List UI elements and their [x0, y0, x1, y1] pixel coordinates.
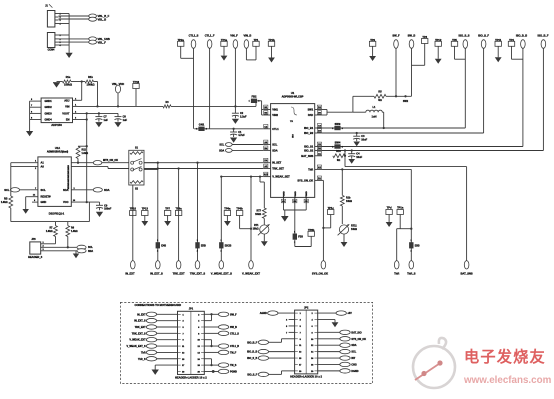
svg-text:VBL_VDD: VBL_VDD [112, 82, 124, 86]
thermistor RT11 10k [341, 206, 343, 224]
node SDA flag header [77, 249, 86, 253]
wire V_WEAK_SET rail [221, 176, 263, 178]
ground [435, 59, 442, 64]
wire [269, 341, 282, 343]
svg-text:CHG: CHG [351, 363, 356, 366]
svg-text:GND4: GND4 [45, 118, 53, 122]
node ThR flag [394, 261, 399, 269]
svg-text:ISO_B_B: ISO_B_B [247, 351, 258, 354]
svg-text:BAT_SNS: BAT_SNS [461, 272, 473, 276]
wire [157, 326, 178, 328]
svg-text:ADP5063-WLCSP: ADP5063-WLCSP [282, 94, 304, 98]
node ISO_B_B flag [521, 40, 526, 49]
bead SW9 [334, 126, 340, 130]
svg-text:CTL1_B: CTL1_B [230, 345, 239, 348]
svg-text:ISO_B2: ISO_B2 [304, 131, 314, 135]
bead SW4 [334, 144, 340, 148]
junction PGND [212, 370, 215, 373]
svg-text:1uF: 1uF [123, 119, 128, 122]
wire [318, 331, 340, 333]
wire VOUT drop [86, 113, 88, 202]
node ISO_S_B mb flag [258, 356, 268, 360]
wire ISO_S_S drop [464, 48, 466, 128]
wire header row1 [45, 243, 56, 245]
node ThR mb flag [146, 350, 156, 354]
capacitor C2 2.2uF [234, 105, 236, 107]
ground [348, 159, 355, 164]
svg-text:1.0kΩ: 1.0kΩ [1, 201, 8, 204]
node TM_S mb flag [218, 363, 228, 367]
svg-text:SDA: SDA [351, 344, 356, 347]
svg-text:GND3: GND3 [45, 111, 53, 115]
svg-text:1uH: 1uH [372, 115, 377, 119]
svg-text:RESET#: RESET# [41, 195, 52, 199]
resistor bottom inside switch frame [130, 181, 143, 184]
wire EN [78, 119, 87, 121]
wire SW_B drop [411, 48, 413, 96]
svg-text:VIN_F: VIN_F [230, 34, 238, 38]
ground [369, 56, 376, 61]
testpoint TP11 [495, 41, 501, 46]
svg-text:TP2a: TP2a [178, 38, 185, 42]
svg-text:BAT_ISO: BAT_ISO [351, 331, 361, 334]
node ISO_B_F mb flag [258, 340, 268, 344]
ground [95, 122, 102, 127]
bead E5B [195, 242, 199, 248]
svg-text:EN: EN [66, 118, 70, 122]
svg-text:R10: R10 [336, 150, 341, 153]
svg-text:AGND: AGND [260, 312, 267, 315]
svg-text:IN_EXT: IN_EXT [137, 313, 146, 316]
node VIN_F flag [233, 40, 238, 49]
wire BAT_SNS rail [345, 166, 467, 168]
resistor R5 0ohm [374, 94, 386, 98]
resistor R10 0ohm [333, 154, 345, 158]
wire [157, 351, 178, 353]
wire [269, 373, 282, 375]
pin RESET [26, 196, 38, 198]
wire [204, 326, 218, 328]
ground [25, 197, 27, 209]
resistor R1a 100k [57, 81, 63, 83]
svg-text:VIN2: VIN2 [272, 113, 278, 117]
resistor R12 pullup 1k [78, 145, 87, 147]
pin SDA out [71, 189, 93, 191]
svg-text:SW_F: SW_F [230, 313, 237, 316]
wire [269, 351, 295, 353]
svg-text:ThR_S: ThR_S [138, 358, 146, 361]
svg-text:10uF: 10uF [361, 138, 367, 141]
svg-text:CTL1: CTL1 [272, 127, 279, 131]
wire [269, 357, 295, 359]
svg-text:PAD: PAD [308, 113, 313, 117]
wire BAT_SNS drop [466, 167, 468, 261]
wire [204, 370, 218, 372]
wire [157, 345, 178, 347]
wire [157, 313, 178, 315]
svg-text:TP13: TP13 [142, 207, 149, 211]
node VBL_F flag [89, 40, 97, 44]
ground [268, 58, 275, 63]
switch S1/S2 frame [129, 150, 144, 185]
wire SW1/PAD bracket [322, 109, 327, 111]
svg-text:1.0kΩ: 1.0kΩ [82, 152, 89, 155]
svg-text:4.7uF: 4.7uF [238, 134, 245, 137]
svg-text:ThR: ThR [141, 351, 146, 354]
wire ThR jog [397, 228, 412, 230]
svg-text:TP1a: TP1a [397, 206, 404, 210]
svg-text:E6CB: E6CB [225, 244, 232, 247]
svg-text:PGND: PGND [295, 191, 297, 198]
svg-text:TP1a: TP1a [221, 38, 228, 42]
node VIN_B flag [244, 40, 249, 49]
wire [71, 81, 85, 83]
wire shield bus [68, 14, 70, 53]
svg-text:+5V: +5V [347, 312, 352, 315]
connector JP2 header ladder right [295, 310, 318, 374]
testpoint TP12 [435, 41, 441, 46]
svg-text:10kΩ: 10kΩ [346, 200, 352, 203]
node CHG mb flag [340, 362, 350, 366]
svg-text:V_WEAK_EXT_S: V_WEAK_EXT_S [126, 345, 146, 348]
node CTL1_B mb flag [218, 344, 228, 348]
pin MR output [71, 162, 93, 164]
node VBL_B flag [89, 17, 97, 21]
svg-text:HEADER+LADDER 10 x 2: HEADER+LADDER 10 x 2 [175, 375, 207, 379]
svg-text:TP5: TP5 [452, 38, 457, 42]
svg-text:VBL_B: VBL_B [98, 18, 107, 22]
wire VBUS_B [59, 15, 89, 17]
svg-text:CTL1_F: CTL1_F [205, 34, 215, 38]
svg-text:100nF: 100nF [104, 208, 112, 211]
node SW_B mb flag [218, 325, 228, 329]
capacitor C8 1uF [117, 113, 119, 116]
wire gnd bus [29, 101, 31, 131]
svg-text:TP1c: TP1c [328, 206, 335, 210]
svg-text:ThR_S: ThR_S [407, 272, 416, 276]
wire PGND rail [284, 209, 307, 211]
pin A0 [11, 166, 38, 168]
svg-text:ISO_S_F: ISO_S_F [478, 34, 489, 38]
testpoint TP6b [236, 211, 242, 216]
svg-text:INT: INT [351, 357, 355, 360]
svg-text:ISO_S1: ISO_S1 [304, 145, 314, 149]
ic U1A box [38, 157, 71, 207]
node TRK_EXT flag [176, 261, 181, 269]
node VBL_B_F flag [89, 14, 97, 18]
svg-text:ISO_S_S: ISO_S_S [458, 34, 469, 38]
svg-text:U1A: U1A [55, 146, 60, 150]
svg-text:TP10: TP10 [130, 207, 137, 211]
ic U1 ADP5063 box [271, 104, 315, 198]
bead FB2 on VIN feed [255, 101, 257, 107]
node AGND mb flag [268, 311, 278, 315]
testpoint TP8a [175, 211, 181, 216]
resistor R1b divider 10k [340, 195, 344, 206]
bead GN1 [198, 127, 204, 131]
ground [341, 242, 348, 247]
svg-text:V_WEAK_EXT_S: V_WEAK_EXT_S [211, 272, 232, 276]
svg-text:R1b: R1b [88, 76, 93, 79]
wire TRK_EXT_S drop [197, 163, 199, 261]
svg-text:TP4: TP4 [509, 38, 514, 42]
svg-text:PGND: PGND [230, 370, 237, 373]
wire ADJ feedback [81, 82, 83, 101]
svg-text:GN1: GN1 [199, 123, 205, 127]
wire rail ISO_S1 [322, 146, 523, 148]
bead E4B [156, 242, 160, 248]
svg-text:V_WEAK_EXT: V_WEAK_EXT [242, 272, 260, 276]
node IN_EXT mb flag [146, 312, 156, 316]
svg-text:TRK_EXT: TRK_EXT [173, 272, 185, 276]
connector JP1 header ladder left [178, 311, 205, 374]
bead E8B [409, 242, 413, 248]
wire ThR rail [322, 168, 411, 170]
svg-text:SDA: SDA [104, 188, 110, 192]
ground [332, 322, 339, 327]
svg-text:FB2: FB2 [252, 95, 258, 99]
node CTL1_F flag [207, 40, 212, 49]
svg-text:TP1b: TP1b [268, 38, 275, 42]
node SDA mb flag [340, 343, 350, 347]
svg-text:E5B: E5B [201, 244, 206, 247]
svg-text:VIN: VIN [65, 104, 69, 108]
wire SYS_ON_OK drop [322, 179, 323, 181]
ground [221, 56, 228, 61]
wire SCL to U1 [232, 144, 263, 146]
connector CON4 (bottom USB) [47, 33, 55, 48]
svg-text:ISO_S_B: ISO_S_B [247, 357, 257, 360]
svg-text:SYS_ON_OK: SYS_ON_OK [351, 338, 366, 341]
wire rail ISO_B2 [322, 132, 484, 134]
node BAT_ISO mb flag [340, 330, 350, 334]
wire rail2 to U1 TRK_SET [108, 168, 263, 170]
wire [318, 357, 340, 359]
svg-text:JP3: JP3 [31, 238, 36, 241]
wire [318, 363, 340, 365]
wire loop bottom [10, 208, 12, 222]
svg-text:MR2: MR2 [68, 173, 70, 177]
svg-text:PGND: PGND [284, 191, 286, 198]
svg-text:TP6a: TP6a [224, 207, 231, 211]
svg-text:SCL: SCL [351, 351, 356, 354]
svg-text:SDA: SDA [219, 149, 224, 152]
pin2 wire [71, 166, 108, 168]
wire mb ground row9 [155, 364, 177, 366]
ground [386, 222, 393, 227]
ground [152, 370, 159, 375]
svg-text:SYS_ON_OK: SYS_ON_OK [312, 272, 328, 276]
wire rail ISO_B1 [322, 127, 465, 129]
testpoint TP6a [224, 211, 230, 216]
svg-text:JP1: JP1 [189, 308, 194, 311]
svg-text:SCL: SCL [4, 188, 10, 192]
wire [157, 339, 178, 341]
svg-text:SDA: SDA [272, 148, 278, 152]
svg-text:ADJ: ADJ [64, 98, 70, 102]
node ISO_S_F mb flag [258, 372, 268, 376]
connector J1 (top USB input) [47, 11, 55, 28]
node CTL1_S mb flag [218, 331, 228, 335]
node CTL1_S flag [191, 40, 196, 49]
wire [386, 95, 412, 97]
svg-text:ThR: ThR [308, 167, 313, 171]
svg-text:SW1: SW1 [308, 108, 314, 112]
ground [114, 122, 121, 127]
node VBL_VDD flag [115, 85, 120, 93]
node INT mb flag [340, 356, 350, 360]
svg-text:BAT_SNS: BAT_SNS [301, 154, 313, 158]
node V_WEAK_EXT_S flag [219, 261, 224, 269]
svg-text:SCL: SCL [41, 188, 47, 192]
svg-text:TRK_SET: TRK_SET [272, 167, 284, 171]
svg-text:SCL: SCL [219, 144, 224, 147]
svg-text:100kΩ: 100kΩ [64, 83, 73, 87]
ground [495, 57, 502, 62]
svg-text:ISO_S_F: ISO_S_F [247, 373, 257, 376]
ground [141, 221, 148, 226]
svg-text:SCL: SCL [272, 143, 278, 147]
ground header [75, 251, 77, 254]
ground [224, 221, 231, 226]
svg-text:V_WEAK_EXT: V_WEAK_EXT [129, 339, 146, 342]
svg-text:V_WEAK_SET: V_WEAK_SET [272, 175, 290, 179]
resistor top inside switch frame [130, 152, 143, 155]
testpoint TP1c [328, 210, 334, 215]
ground [53, 83, 60, 88]
testpoint TP10 [130, 211, 136, 216]
svg-text:VBL_USB: VBL_USB [98, 37, 110, 41]
node TRK_EXT_S mb flag [146, 331, 156, 335]
wire V_WEAK_EXT drop [250, 177, 252, 261]
wire [204, 313, 218, 315]
node BAT_SNS flag [464, 261, 469, 269]
svg-text:HEADER_3: HEADER_3 [28, 255, 43, 259]
testpoint TP4 [508, 41, 514, 46]
watermark logo circle [413, 338, 455, 388]
node ThR_S mb flag [146, 357, 156, 361]
node IN_EXT flag [131, 261, 136, 269]
svg-text:TRK_EXT_S: TRK_EXT_S [132, 332, 146, 335]
node PGND mb flag [218, 369, 228, 373]
node SCL mb flag [340, 349, 350, 353]
node VBL_USB flag [89, 37, 97, 41]
node DGND mb flag [340, 369, 350, 373]
svg-text:TP11: TP11 [495, 38, 502, 42]
svg-text:ISO_B_F: ISO_B_F [537, 34, 548, 38]
bead E6CB [219, 242, 223, 248]
node ISO_S_S flag [463, 40, 468, 49]
svg-text:1.0kΩ: 1.0kΩ [71, 230, 78, 233]
switch S1 contacts [131, 161, 134, 164]
testpoint TP8b [308, 231, 314, 236]
svg-text:JP2: JP2 [304, 307, 309, 310]
svg-text:SW2: SW2 [403, 100, 409, 103]
wire VIN_F drop [234, 48, 236, 110]
svg-text:MR1: MR1 [68, 169, 70, 173]
wire SW node up [352, 96, 354, 112]
ground PGND [284, 210, 286, 216]
testpoint TP1a2 [397, 210, 403, 215]
svg-text:SYS_ON_OK: SYS_ON_OK [297, 178, 313, 182]
node IN_EXT_S flag [156, 261, 161, 269]
wire SW_F drop [395, 48, 397, 96]
svg-text:E4B: E4B [161, 244, 166, 247]
svg-text:TR: TR [290, 121, 293, 123]
wire [204, 364, 218, 366]
testpoint TP2a [178, 41, 184, 46]
resistor R3 inline [163, 105, 171, 108]
node SCL flag header [77, 245, 86, 249]
svg-text:10kΩ: 10kΩ [253, 228, 259, 231]
wire SDA to U1 [232, 149, 263, 151]
svg-text:VIN_B: VIN_B [244, 34, 252, 38]
svg-text:1.0kΩ: 1.0kΩ [46, 230, 53, 233]
svg-text:TM_F: TM_F [230, 351, 237, 354]
svg-text:TP7: TP7 [165, 207, 170, 211]
wire [204, 332, 218, 334]
testpoint TP7 [164, 211, 170, 216]
svg-text:电子发烧友: 电子发烧友 [464, 348, 546, 366]
svg-text:10kΩ: 10kΩ [255, 213, 261, 216]
node SYS_ON_OK mb flag [340, 337, 350, 341]
node TRK_EXT mb flag [146, 325, 156, 329]
node MTB_ON_OK flag [93, 161, 102, 165]
wire IN_EXT drop [132, 185, 134, 261]
wire VOUT rail [78, 112, 119, 114]
node SW_F mb flag [218, 312, 228, 316]
testpoint TPd [386, 210, 392, 215]
svg-text:TRK_EXT_S: TRK_EXT_S [190, 272, 205, 276]
svg-text:HEADER+LADDER 10 x 2: HEADER+LADDER 10 x 2 [290, 375, 322, 379]
wire BAT_SNS branch [344, 151, 346, 167]
svg-text:2.2uF: 2.2uF [240, 115, 247, 118]
svg-text:ISO_S2: ISO_S2 [304, 149, 314, 153]
node SW_F flag [394, 40, 399, 49]
testpoint TP9 [369, 41, 375, 46]
svg-text:DGND: DGND [351, 370, 358, 373]
bead FB3 on PGND sense [294, 210, 296, 234]
ground [353, 142, 360, 147]
svg-text:CON4: CON4 [48, 49, 55, 52]
wire jog row2 to SW_F [204, 320, 211, 322]
svg-text:PGND: PGND [306, 191, 308, 198]
svg-text:ISO_B_B: ISO_B_B [516, 34, 527, 38]
svg-text:TPd: TPd [387, 206, 392, 210]
wire ISO_S_F drop [483, 48, 485, 133]
wire mb agnd row2 [318, 319, 335, 321]
wire header row2 [45, 246, 77, 248]
wire VIN rail [78, 105, 164, 107]
svg-text:SW_F: SW_F [392, 34, 400, 38]
node SCL flag mid [225, 143, 232, 147]
testpoint TP3 [422, 39, 428, 44]
svg-text:GND2: GND2 [45, 105, 53, 109]
capacitor C3 10uF [356, 132, 358, 134]
wire [318, 338, 340, 340]
svg-text:www.elecfans.com: www.elecfans.com [463, 375, 552, 386]
wire [318, 344, 340, 346]
wire [318, 351, 340, 353]
svg-text:MTB_ON_OK: MTB_ON_OK [103, 159, 118, 162]
wire CTL1_F drop [209, 48, 211, 129]
wire rail1 to U1 IN_SET [102, 162, 263, 164]
ground [164, 221, 171, 226]
svg-text:E8B: E8B [415, 244, 420, 247]
svg-text:100kΩ: 100kΩ [87, 83, 96, 87]
svg-text:IN_EXT: IN_EXT [125, 272, 135, 276]
pin GND [32, 201, 38, 203]
